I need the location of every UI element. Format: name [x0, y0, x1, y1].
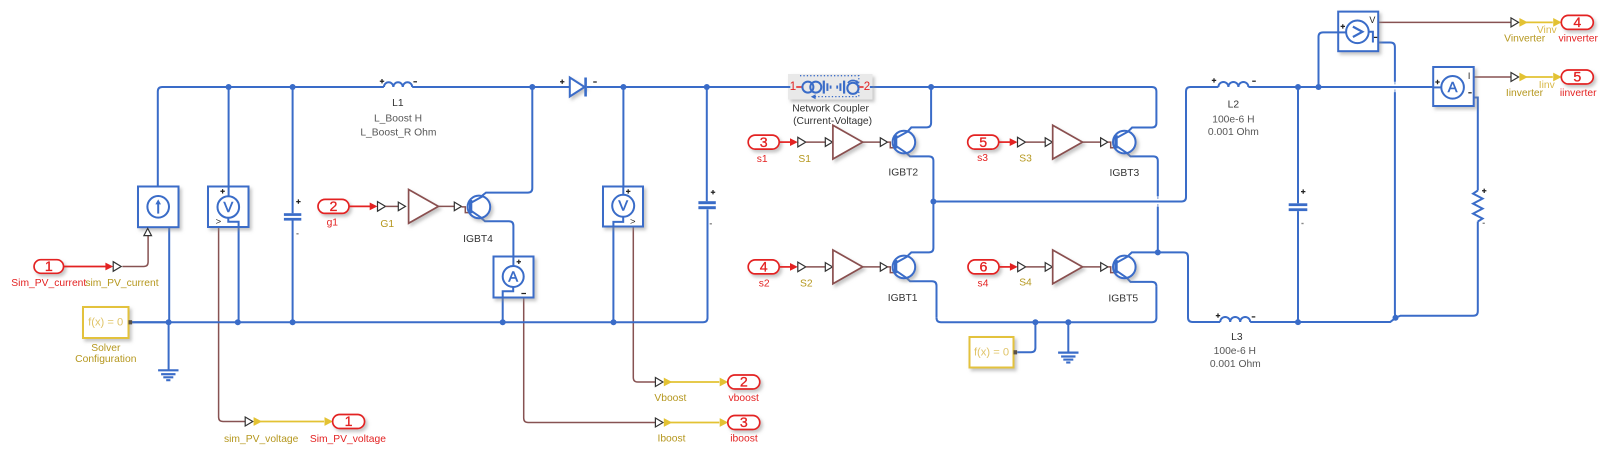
wire: s3 to S3 gain [1026, 141, 1046, 143]
svg-text:L_Boost_R Ohm: L_Boost_R Ohm [360, 128, 436, 139]
wire: solver2 to lower rail [1017, 322, 1035, 352]
current sensor Iboost plus mark [517, 260, 521, 264]
label s4 [978, 278, 989, 289]
gain block S3 [1053, 125, 1083, 159]
voltage sensor V1 circle [218, 196, 240, 218]
current sensor Iinv circle [1441, 76, 1464, 99]
wire: sim_PV_voltage signal from V1 [219, 227, 246, 422]
svg-text:3: 3 [740, 415, 748, 431]
input port 1 (Sim_PV_current) [34, 259, 64, 275]
label s2 [759, 278, 770, 289]
current sensor Iinv plus mark [1435, 80, 1439, 84]
wire: IGBT1 collector to midpoint [908, 202, 934, 256]
connect triangle IGBT5 gate [1101, 263, 1108, 272]
svg-text:1: 1 [345, 414, 353, 430]
signal arrow s4 [999, 263, 1018, 271]
label Sim_PV_voltage [310, 434, 386, 445]
connect triangle S4 in [1045, 263, 1052, 272]
svg-text:L2: L2 [1228, 99, 1240, 110]
wire: V1 sensor top to bus [228, 87, 230, 187]
wire: G1 gain to IGBT4 gate [438, 205, 454, 207]
svg-text:L1: L1 [392, 98, 404, 109]
junction: IGBT4 collector on top bus [529, 84, 535, 90]
network coupler port 1 red stub [796, 86, 803, 88]
capacitor C1 minus mark [296, 233, 298, 234]
svg-text:Sim_PV_voltage: Sim_PV_voltage [310, 434, 386, 445]
svg-text:s1: s1 [757, 154, 768, 165]
voltage sensor Vinv V port mark [1369, 15, 1375, 25]
current source PS input port triangle [144, 228, 152, 235]
connect triangle sim_PV_voltage [245, 417, 253, 426]
junction: V1 sensor tap on top bus [226, 84, 232, 90]
label L3 [1231, 332, 1243, 343]
IGBT Q3 (IGBT3) [1113, 131, 1136, 154]
wire: S1 gain to IGBT2 gate [863, 141, 881, 143]
label Iinverter [1506, 88, 1544, 99]
label sim_PV_current (yellow) [85, 278, 158, 289]
wire: yellow signal Vinv [1526, 21, 1553, 23]
label S4 [1019, 278, 1032, 289]
svg-text:>: > [630, 217, 636, 228]
label Vinverter [1504, 34, 1546, 45]
current sensor Iinv minus mark [1468, 92, 1471, 94]
IGBT Q4 (IGBT4) [468, 196, 491, 219]
capacitor C1 plus mark [296, 199, 300, 203]
wire: Sim_PV_current signal to source [122, 236, 148, 267]
current sensor Iboost circle [503, 266, 524, 287]
gain block G1 [409, 190, 439, 224]
svg-text:s3: s3 [977, 153, 988, 164]
signal arrow s3 [999, 138, 1018, 146]
wire: IGBT4 emitter to Iboost sensor [481, 218, 513, 256]
svg-text:2: 2 [330, 199, 338, 215]
svg-text:G1: G1 [380, 219, 394, 230]
capacitor C2 [698, 201, 715, 209]
yellow arrow head Iinv 2 [1553, 73, 1561, 82]
label s3 [977, 153, 988, 164]
wire: s1 to S1 gain [806, 141, 826, 143]
voltage sensor Vinv internal left lead [1338, 31, 1346, 33]
connect triangle G1 in [398, 202, 405, 211]
value label L2 plus [1212, 78, 1216, 82]
svg-text:V: V [1369, 15, 1375, 25]
current sensor Iinv I port mark [1468, 71, 1471, 81]
wire: yellow signal Iinv [1526, 76, 1553, 78]
svg-text:2: 2 [740, 375, 748, 391]
connect triangle s1 [798, 137, 806, 147]
capacitor C3 minus mark [1301, 223, 1303, 224]
voltage sensor V1 letter [223, 200, 233, 216]
yellow arrow head Iboost 1 [664, 418, 672, 427]
wire: C1 top lead [292, 87, 294, 213]
svg-text:4: 4 [760, 260, 768, 276]
signal arrow s2 [779, 263, 798, 271]
wire: IGBT2 gate step [888, 142, 895, 148]
label vboost [729, 393, 759, 404]
label Vinv [1537, 25, 1558, 36]
yellow arrow head Iboost 2 [720, 418, 728, 427]
current sensor Iboost internal bottom lead [503, 287, 514, 298]
wire: node A midpoint rail to L2 [933, 87, 1218, 202]
svg-text:s4: s4 [978, 278, 989, 289]
svg-text:2: 2 [864, 81, 870, 93]
connect triangle IGBT2 gate [880, 138, 887, 147]
svg-text:s2: s2 [759, 278, 770, 289]
wire: IGBT2 emitter to midpoint [907, 153, 934, 201]
yellow arrow head Vboost 2 [720, 378, 728, 387]
voltage sensor V2 block [603, 187, 643, 227]
voltage sensor V1 internal bottom lead [228, 218, 238, 227]
wire: IGBT2 collector to top bus [908, 87, 931, 131]
network coupler left wire stub [788, 86, 790, 88]
junction: ground2 on lower rail [1065, 319, 1071, 325]
diode plus mark [560, 80, 564, 84]
network coupler icon circles [802, 82, 821, 93]
wire: Vboost signal from V2 [633, 227, 655, 383]
input port 4 (s2) [748, 260, 779, 276]
signal arrow Sim_PV_current [64, 263, 114, 271]
inductor L2 coil [1218, 82, 1248, 87]
wire: Vinv sensor minus down upper [1369, 32, 1395, 82]
svg-text:Iinverter: Iinverter [1506, 88, 1544, 99]
label L1 value 2 [360, 128, 436, 139]
svg-text:(Current-Voltage): (Current-Voltage) [793, 116, 872, 127]
wire: IGBT5 collector connection [1128, 252, 1158, 255]
voltage sensor V2 PS port mark [630, 217, 636, 228]
wire: C3 top lead [1297, 87, 1299, 203]
svg-text:IGBT3: IGBT3 [1110, 168, 1140, 179]
wire hop fade upper at node plus crossing [1394, 82, 1396, 85]
voltage sensor V2 circle [612, 195, 634, 217]
svg-text:IGBT5: IGBT5 [1108, 294, 1138, 305]
signal arrow g1 [349, 203, 378, 211]
input port 6 (s4) [968, 260, 999, 276]
wire: top DC bus left segment (PV+ node) [158, 87, 384, 187]
svg-text:S2: S2 [800, 279, 813, 290]
yellow arrow head sim_PV_voltage 2 [325, 417, 333, 426]
value label L3 plus [1216, 313, 1220, 317]
wire: IGBT3 emitter to IGBT5 collector upper [1127, 153, 1158, 196]
svg-text:S1: S1 [798, 154, 811, 165]
output port 1 (sim_PV_voltage) [333, 414, 365, 430]
junction: Vinv sensor tap on node plus [1316, 84, 1322, 90]
label iboost [730, 433, 758, 444]
wire: S3 gain to IGBT3 gate [1083, 141, 1101, 143]
yellow arrow head Vinv 2 [1553, 18, 1561, 27]
output port 3 (Iboost) [728, 415, 760, 431]
label S2 [800, 279, 813, 290]
current sensor Iboost block [494, 257, 534, 298]
junction: node A midpoint [930, 199, 936, 205]
label Current-Voltage [793, 116, 872, 127]
label Iinv [1539, 80, 1556, 91]
connect triangle Iinv [1511, 73, 1519, 82]
voltage sensor Vinv letter (rotated V) [1353, 27, 1363, 37]
voltage sensor V1 internal top lead [228, 187, 230, 197]
svg-text:100e-6 H: 100e-6 H [1214, 346, 1256, 357]
capacitor C2 plus mark [711, 190, 715, 194]
junction: C1 top on top bus [290, 84, 296, 90]
wire: bottom DC bus (PV- node) [132, 209, 708, 322]
svg-text:sim_PV_current: sim_PV_current [85, 278, 158, 289]
label Iboost [657, 433, 685, 444]
svg-text:Configuration: Configuration [75, 354, 137, 365]
label iinverter [1560, 88, 1597, 99]
svg-text:L_Boost H: L_Boost H [374, 113, 422, 124]
connect triangle s2 [798, 262, 806, 272]
svg-text:5: 5 [1573, 70, 1581, 86]
label vinverter [1558, 34, 1598, 45]
voltage sensor V2 internal top lead [622, 187, 624, 195]
svg-text:0.001 Ohm: 0.001 Ohm [1210, 359, 1261, 370]
wire: g1 to G1 gain [386, 205, 399, 207]
connect triangle S1 in [825, 138, 832, 147]
svg-text:1: 1 [790, 81, 796, 93]
svg-text:f(x) = 0: f(x) = 0 [974, 346, 1009, 358]
wire: S4 gain to IGBT5 gate [1083, 266, 1101, 268]
solver configuration block [83, 307, 132, 338]
current source arrow [155, 199, 161, 213]
connect triangle Iboost [655, 418, 663, 427]
network coupler port 2 number [864, 81, 870, 93]
ground G2 symbol [1058, 353, 1078, 363]
svg-text:100e-6 H: 100e-6 H [1212, 114, 1254, 125]
wire hop fade upper at midrail crossing [1157, 196, 1159, 199]
ground G2 stem [1067, 322, 1069, 352]
voltage sensor Vinv internal minus lead [1369, 32, 1373, 43]
svg-text:Vboost: Vboost [654, 393, 686, 404]
wire: current source negative to bottom bus [168, 227, 170, 322]
svg-text:Sim_PV_current: Sim_PV_current [11, 278, 86, 289]
wire: yellow signal Vboost [670, 381, 719, 383]
wire: s4 to S4 gain [1026, 266, 1046, 268]
label Vboost [654, 393, 686, 404]
yellow arrow head Vinv 1 [1519, 18, 1527, 27]
voltage sensor Vinv minus mark [1374, 36, 1377, 38]
wire: Iboost sensor output to bottom bus [502, 298, 504, 323]
svg-text:L3: L3 [1231, 332, 1243, 343]
svg-text:4: 4 [1573, 15, 1581, 31]
junction: C3 bottom on node minus [1295, 319, 1301, 325]
network coupler icon source circle [847, 80, 859, 94]
connect triangle s3 [1018, 137, 1026, 147]
svg-text:1: 1 [45, 259, 53, 275]
wire: S2 gain to IGBT1 gate [863, 266, 881, 268]
wire: Vinv signal from sensor [1378, 21, 1511, 23]
label L2 [1228, 99, 1240, 110]
svg-text:A: A [508, 269, 518, 285]
wire: s2 to S2 gain [806, 266, 826, 268]
svg-text:Solver: Solver [91, 343, 121, 354]
yellow arrow head Iinv 1 [1519, 73, 1527, 82]
svg-text:6: 6 [980, 260, 988, 276]
svg-text:Vinverter: Vinverter [1504, 34, 1546, 45]
IGBT Q2 (IGBT2) [893, 131, 916, 154]
svg-text:IGBT2: IGBT2 [888, 168, 918, 179]
junction: Iboost sensor on bottom bus [500, 319, 506, 325]
connect triangle S3 in [1045, 138, 1052, 147]
wire hop fade lower at midrail crossing [1157, 204, 1159, 207]
wire: C2 top lead [706, 87, 708, 201]
yellow arrow head sim_PV_voltage 1 [254, 417, 262, 426]
capacitor C1 [284, 213, 301, 220]
wire: V2 sensor bottom to bus [612, 227, 614, 323]
junction: V2 sensor on bottom bus [611, 319, 617, 325]
voltage sensor Vinv circle [1346, 21, 1369, 44]
svg-text:f(x) = 0: f(x) = 0 [88, 317, 123, 329]
junction: Vinv minus jog on node minus [1393, 315, 1399, 321]
voltage sensor V2 letter [618, 199, 628, 215]
wire: solver1 to bottom bus [132, 321, 169, 323]
label IGBT3 [1110, 168, 1140, 179]
junction: IGBT5 collector node [1155, 249, 1161, 255]
solver configuration 2 block [970, 337, 1018, 368]
label L2 value 2 [1208, 127, 1259, 138]
label IGBT2 [888, 168, 918, 179]
current sensor Iboost minus mark [521, 293, 526, 295]
connect triangle S2 in [825, 263, 832, 272]
svg-text:S3: S3 [1019, 154, 1032, 165]
connect triangle IGBT1 gate [880, 263, 887, 272]
solver configuration text [88, 317, 123, 329]
current sensor Iboost internal top lead [512, 257, 514, 267]
voltage sensor Vinv plus mark [1341, 24, 1345, 28]
wire: H-bridge lower rail [937, 286, 1157, 322]
wire: IGBT1 emitter to lower rail [907, 278, 937, 318]
junction: ground/current source on bottom bus [166, 319, 172, 325]
wire: IGBT3 collector connection [1128, 123, 1156, 131]
value label L3 minus [1252, 316, 1256, 318]
solver configuration 2 text [974, 346, 1009, 358]
wire: IGBT4 collector to top bus [482, 87, 532, 196]
wire: node B down to L3 [1158, 252, 1220, 322]
junction: C3 top on node plus [1295, 84, 1301, 90]
label Network Coupler [792, 103, 869, 114]
wire: Iboost signal from sensor [524, 298, 656, 423]
label IGBT5 [1108, 294, 1138, 305]
current source block (Controlled Current Source) [138, 187, 179, 228]
connect triangle Vinv [1511, 18, 1519, 27]
junction: C1 bottom on bottom bus [290, 319, 296, 325]
connect triangle Vboost [655, 378, 663, 387]
svg-text:V: V [223, 200, 233, 216]
svg-text:sim_PV_voltage: sim_PV_voltage [224, 434, 299, 445]
svg-text:vboost: vboost [729, 393, 759, 404]
label L3 value 1 [1214, 346, 1256, 357]
wire: top DC bus right segment [587, 87, 1157, 123]
svg-text:g1: g1 [327, 218, 339, 229]
connect triangle Sim_PV_current [113, 262, 121, 272]
gain block S2 [833, 250, 863, 284]
input port 5 (s3) [968, 135, 999, 151]
current sensor Iboost letter [508, 269, 518, 285]
svg-text:iinverter: iinverter [1560, 88, 1597, 99]
junction: solver2 on lower rail [1032, 319, 1038, 325]
network coupler right wire stub [870, 86, 873, 88]
network coupler port 1 number [790, 81, 796, 93]
wire: node plus riser to Vinv sensor [1319, 32, 1339, 87]
gain block S1 [833, 125, 863, 159]
wire: Iinv signal from sensor [1474, 76, 1511, 78]
label g1 [327, 218, 339, 229]
label s1 [757, 154, 768, 165]
network coupler dotted frame [800, 76, 859, 100]
connect triangle g1 [378, 202, 386, 212]
label L2 value 1 [1212, 114, 1254, 125]
IGBT Q5 (IGBT5) [1113, 256, 1136, 279]
network coupler block [788, 74, 873, 100]
input port 3 (s1) [748, 135, 779, 151]
svg-text:>: > [216, 217, 222, 228]
wire: C1 bottom lead [292, 220, 294, 322]
wire: IGBT5 emitter to lower rail [1127, 278, 1157, 286]
resistor load R1 [1473, 191, 1483, 222]
ground G1 symbol [158, 370, 178, 380]
junction: IGBT2 collector on top bus [928, 84, 934, 90]
label Solver [91, 343, 121, 354]
voltage sensor V2 plus mark [626, 189, 630, 193]
inductor L3 coil [1220, 317, 1250, 322]
inductor L1 coil [384, 82, 412, 87]
voltage sensor V2 internal bottom lead [613, 217, 623, 227]
svg-text:Network Coupler: Network Coupler [792, 103, 869, 114]
wire: C3 bottom lead [1297, 211, 1299, 322]
label L1 [392, 98, 404, 109]
output port 2 (Vboost) [728, 375, 760, 391]
svg-text:0.001 Ohm: 0.001 Ohm [1208, 127, 1259, 138]
svg-text:I: I [1468, 71, 1471, 81]
svg-text:A: A [1448, 80, 1458, 96]
wire: node minus to load resistor [1396, 222, 1478, 318]
svg-text:3: 3 [760, 135, 768, 151]
current source circle [147, 196, 169, 218]
svg-text:iboost: iboost [730, 433, 758, 444]
svg-text:vinverter: vinverter [1558, 34, 1598, 45]
svg-text:5: 5 [979, 135, 987, 151]
connect triangle IGBT4 gate [454, 202, 461, 211]
capacitor C3 [1289, 203, 1308, 211]
wire: V1 sensor bottom to bus [238, 227, 240, 322]
svg-text:IGBT4: IGBT4 [463, 234, 493, 245]
connect triangle s4 [1018, 262, 1026, 272]
junction: V2 sensor tap on top bus [620, 84, 626, 90]
label IGBT4 [463, 234, 493, 245]
network coupler icon bars right [837, 81, 844, 94]
voltage sensor V1 PS port mark [216, 217, 222, 228]
junction: V1 sensor on bottom bus [235, 319, 241, 325]
svg-text:V: V [618, 199, 628, 215]
network coupler icon bars left [824, 81, 831, 94]
wire: IGBT5 gate step [1108, 267, 1115, 273]
voltage sensor Vinv block [1338, 12, 1378, 52]
svg-text:IGBT1: IGBT1 [888, 293, 918, 304]
label G1 [380, 219, 394, 230]
ground G1 stem [168, 322, 170, 370]
output port 4 (Vinv) [1561, 15, 1593, 31]
wire: yellow signal Iboost [670, 422, 719, 424]
label sim_PV_voltage [224, 434, 299, 445]
input port 2 (g1) [318, 199, 349, 215]
wire: IGBT4 gate step [462, 207, 470, 213]
label IGBT1 [888, 293, 918, 304]
connect triangle IGBT3 gate [1101, 138, 1108, 147]
label S1 [798, 154, 811, 165]
wire: IGBT3 gate step [1108, 142, 1115, 148]
wire: IGBT3 emitter to IGBT5 collector lower [1157, 207, 1159, 253]
wire: Iinv sensor minus to load resistor [1464, 87, 1478, 190]
value label L1 plus [380, 79, 384, 83]
wire: V2 sensor top to bus [622, 87, 624, 187]
